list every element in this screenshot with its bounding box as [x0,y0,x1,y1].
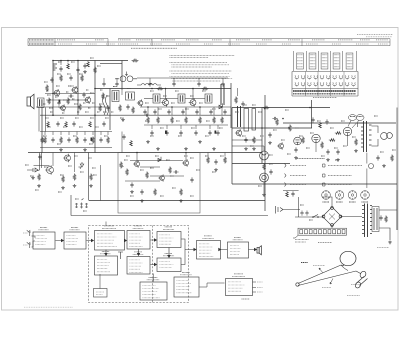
resistor R22 [67,98,70,105]
value label [175,90,179,92]
capacitor C24 [102,81,105,86]
wire [165,89,167,100]
resistor R42 [146,172,149,179]
wire [185,107,187,115]
resistor R26 [46,85,49,92]
diode CR1 [219,103,223,108]
ground [214,168,218,171]
tube socket bottom view 3 [348,191,357,200]
tube socket voltage chart [294,51,357,71]
value label [317,120,321,122]
value label [300,204,304,206]
capacitor C54 [190,177,193,182]
wire [147,107,149,115]
capacitor C71 [209,109,212,114]
resistor R45 [180,189,183,196]
shield can T4 [238,106,241,127]
value label [60,117,64,119]
ballast resistor R61 [252,109,256,131]
value label [71,61,75,63]
value label [93,174,97,176]
capacitor C51 [130,182,133,187]
strip tag [293,236,298,239]
value label [107,95,110,97]
value label [92,102,95,104]
wire [46,99,88,101]
wire [221,107,223,115]
tube socket bottom view 1 [322,191,331,200]
wire [232,127,312,129]
value label [74,103,78,105]
wire [237,88,239,96]
transistor Q3 [189,98,196,106]
wire [125,180,160,182]
transistor Q13 [45,165,53,174]
wire [60,61,62,66]
value label [310,132,314,134]
transistor Q2 [161,98,168,106]
junction [147,106,149,108]
wire [100,165,102,201]
wire [160,98,178,100]
value label [92,167,96,169]
wire AC in [283,209,300,211]
wire [45,108,47,132]
resistor R72 [329,139,335,142]
value label [252,104,256,106]
signal arrow [151,239,157,241]
value label [212,171,216,173]
value label [190,95,194,97]
junction [94,88,96,90]
value label [74,155,78,157]
capacitor C81 [379,215,382,220]
wire B+ out [379,209,397,211]
alignment table text [29,40,388,44]
trimmer capacitor C90 [75,203,78,208]
value label [250,145,254,147]
speaker SP1 [27,94,34,109]
wire right low rail [232,183,397,185]
value label [323,201,330,203]
resistor R34 [76,137,79,144]
spring [341,265,348,271]
resistor R84 [286,191,289,197]
value label [158,108,162,110]
ground [59,148,63,151]
value label [176,120,180,122]
capacitor C75 [325,119,328,124]
junction [151,88,153,90]
left pulley [296,283,299,286]
wire [60,132,62,136]
wire [40,147,112,149]
wire [166,125,168,129]
junction [77,60,79,62]
value label [83,210,87,212]
value label [130,195,134,197]
value label [145,120,149,122]
value label [70,85,74,87]
tube label callouts [348,115,364,128]
capacitor C52 [140,189,143,194]
wire [52,153,54,167]
transistor Q5 [71,86,78,94]
wire [107,132,109,136]
capacitor C29 [197,81,200,86]
value label [100,89,103,91]
resistor R30 [44,137,47,144]
transistor Q8 [133,160,139,168]
value label [341,120,345,122]
value label [45,117,49,119]
value label [150,167,154,169]
value label [185,108,189,110]
value label [72,98,75,100]
dial cord drum [340,251,356,265]
wire [366,153,368,164]
junction [94,114,96,116]
value label [202,90,206,92]
tube V3 [343,127,351,135]
dashed chassis enclosure [89,226,189,303]
resistor R44 [169,167,172,174]
value label [43,103,46,105]
block detector [157,227,181,248]
antenna T mid [118,252,123,259]
capacitor C18 [216,130,219,135]
wire [342,216,363,218]
wire [213,107,215,115]
wire [232,163,290,165]
value label [111,111,114,113]
wire [87,153,89,201]
value label [127,88,131,90]
transformer T2 IF [153,94,160,103]
antenna ANT2 [27,242,31,248]
transistor Q12 [277,142,283,149]
capacitor C34 [83,63,86,68]
value label [104,135,108,137]
value label [166,159,170,161]
value label [205,135,209,137]
value label [309,219,313,221]
capacitor C62 [244,137,247,142]
wire right boundary [230,83,232,128]
resistor R21 [48,98,51,105]
wire [144,124,228,126]
wire [298,197,300,217]
transformer T3 IF [178,94,185,103]
junction [312,216,314,218]
resistor R59 [130,140,133,146]
tube V2 50C5 [312,134,320,142]
wire [263,182,265,193]
transformer T1 osc coil [112,91,119,102]
signal arrow [249,248,257,250]
value label [374,115,378,117]
resistor R73 [355,139,358,146]
ground [382,164,386,167]
resistor R47 [224,157,227,164]
ground [294,156,298,159]
wire [347,136,349,146]
resistor R36 [89,121,92,127]
wire [180,125,182,129]
value label [178,135,182,137]
ground [61,186,65,189]
resistor R76 [335,132,341,135]
wire [181,250,185,265]
junction [165,88,167,90]
junction [60,60,62,62]
diode CR4 [78,162,83,169]
wire [171,107,173,115]
capacitor C65 [269,169,272,174]
resistor R64 [276,119,279,126]
block osc TR-6 [127,252,150,274]
tuning gang C1A [115,72,137,82]
wire [99,274,101,289]
wire [116,78,118,81]
capacitor C75 [223,109,226,114]
value label [362,201,369,203]
wire [41,107,43,153]
electrolytic C45 [91,138,93,141]
transformer T5 output [38,98,45,108]
value label [50,111,53,113]
socket diagrams grid [292,72,358,97]
subchassis enclosure [118,153,200,214]
value label [349,201,356,203]
value label [90,117,94,119]
trimmer capacitor C92 [85,203,88,208]
wire output lead [253,291,257,293]
pilot lamp PL1 [260,151,269,160]
value label [199,102,203,104]
value label [68,85,71,87]
wire [94,61,96,153]
wire [224,153,226,157]
resistor R18 [147,117,150,124]
wire [67,61,69,63]
value label [49,107,53,109]
wire [209,125,211,129]
junction [261,127,263,129]
resistor R16 [185,117,188,124]
wire [181,239,185,250]
transistor Q11 [235,129,242,137]
capacitor C84 [291,191,294,196]
capacitor C41 [56,121,59,126]
value label [58,106,61,108]
wire [195,125,197,129]
wire [217,125,219,129]
value label [150,90,154,92]
value label [358,116,363,118]
line capacitor C82 [300,211,303,216]
resistor R2 [119,105,122,112]
tube socket bottom view 4 [361,191,370,200]
transformer T4 IF [205,94,212,103]
value label [321,155,325,157]
resistor R38 [107,137,110,144]
transformer T6 output [361,121,372,152]
resistor R81 [385,216,388,223]
pointer arrow [319,268,323,273]
wire long bus [28,152,262,154]
capacitor C75 [153,109,156,114]
wire right edge [396,108,398,231]
value label [273,129,277,131]
wire [232,139,262,141]
value label [97,111,100,113]
wire [144,98,153,100]
wire [140,166,160,168]
electrolytic C46 [165,131,167,134]
value label [44,81,48,83]
block battery pack [226,274,253,296]
wire [283,122,396,124]
ground [184,147,188,150]
capacitor C40 [76,67,79,72]
value label [79,126,83,128]
wire [36,106,110,108]
antenna ANT1 [27,230,31,236]
ground [156,147,160,150]
value label [77,111,80,113]
value label [172,187,176,189]
resistor R41 [126,169,129,176]
dial cord run [298,265,361,286]
resistor R18 [157,117,160,124]
value label [258,185,262,187]
value label [99,103,103,105]
value label [90,57,94,59]
block 1st IF amp TR-3 [95,226,125,250]
value label [30,175,34,177]
value label [155,155,159,157]
speaker SP2 [381,133,393,140]
value label [95,126,99,128]
value label [35,189,39,191]
value label [150,135,154,137]
antenna loop L1 [103,95,109,115]
transformer T7 power [362,204,372,238]
ground [212,147,216,150]
wire [185,98,205,100]
ground [83,70,87,73]
terminal strip TS1 [298,228,347,235]
value label [380,151,384,153]
capacitor C23 [221,81,224,86]
wire [100,63,122,65]
block power supply TR-9 [174,272,199,297]
wire [74,153,76,173]
junction [282,118,284,120]
wire [70,195,72,216]
ground [198,140,202,143]
transistor Q14 [63,154,70,162]
resistor R35 [65,121,68,127]
value label [75,198,79,200]
junction [309,107,311,109]
resistor R-tone [120,162,123,169]
value label [266,127,270,129]
wire [52,132,54,136]
shielded cable [36,153,42,172]
wire [157,107,159,115]
ground [179,199,183,202]
junction [52,93,54,95]
capacitor C32 [68,94,73,97]
wire [52,61,54,116]
capacitor C31 [57,100,60,105]
capacitor C79 [167,109,170,114]
value label [73,135,77,137]
ground [73,184,77,187]
value label [269,154,273,156]
resistor R43 [154,189,157,196]
ground [83,148,87,151]
capacitor C17 [165,130,168,135]
wire [38,108,40,132]
capacitor C77 [195,109,198,114]
wire [379,228,390,240]
block audio output TR-8 [228,237,249,258]
junction [52,114,54,116]
value label [343,145,347,147]
junction [52,60,54,62]
value label [80,171,84,173]
resistor R24 [102,93,105,100]
footer text [24,306,73,308]
pilot lamp PL2 [260,173,269,182]
value label [269,163,273,165]
resistor R23 [79,104,82,111]
wire B+ rail right [95,88,231,90]
capacitor C59 [122,134,125,139]
transistor Q9 [182,159,188,167]
capacitor C63 [268,132,271,137]
ground [326,158,330,161]
resistor R71 [321,142,324,149]
resistor R36 [92,137,95,144]
dashed divider [152,226,154,303]
wire AGC line [137,77,228,79]
junction [136,152,138,154]
signal arrow left [219,248,228,250]
wire AVC rail [40,114,231,116]
resistor R25 [94,67,97,74]
capacitor C43 [102,121,105,126]
ground [130,190,134,193]
capacitor C64 [294,147,297,152]
tuning shaft [354,270,367,289]
value label [171,102,175,104]
chart caption row [293,91,356,98]
resistor R39 [73,174,76,181]
value label [86,89,89,91]
ground [37,184,41,187]
value label [113,86,117,88]
wire [121,90,123,95]
wire [207,153,209,157]
value label [56,85,60,87]
ground [244,147,248,150]
value label [57,143,61,145]
junction [67,60,69,62]
